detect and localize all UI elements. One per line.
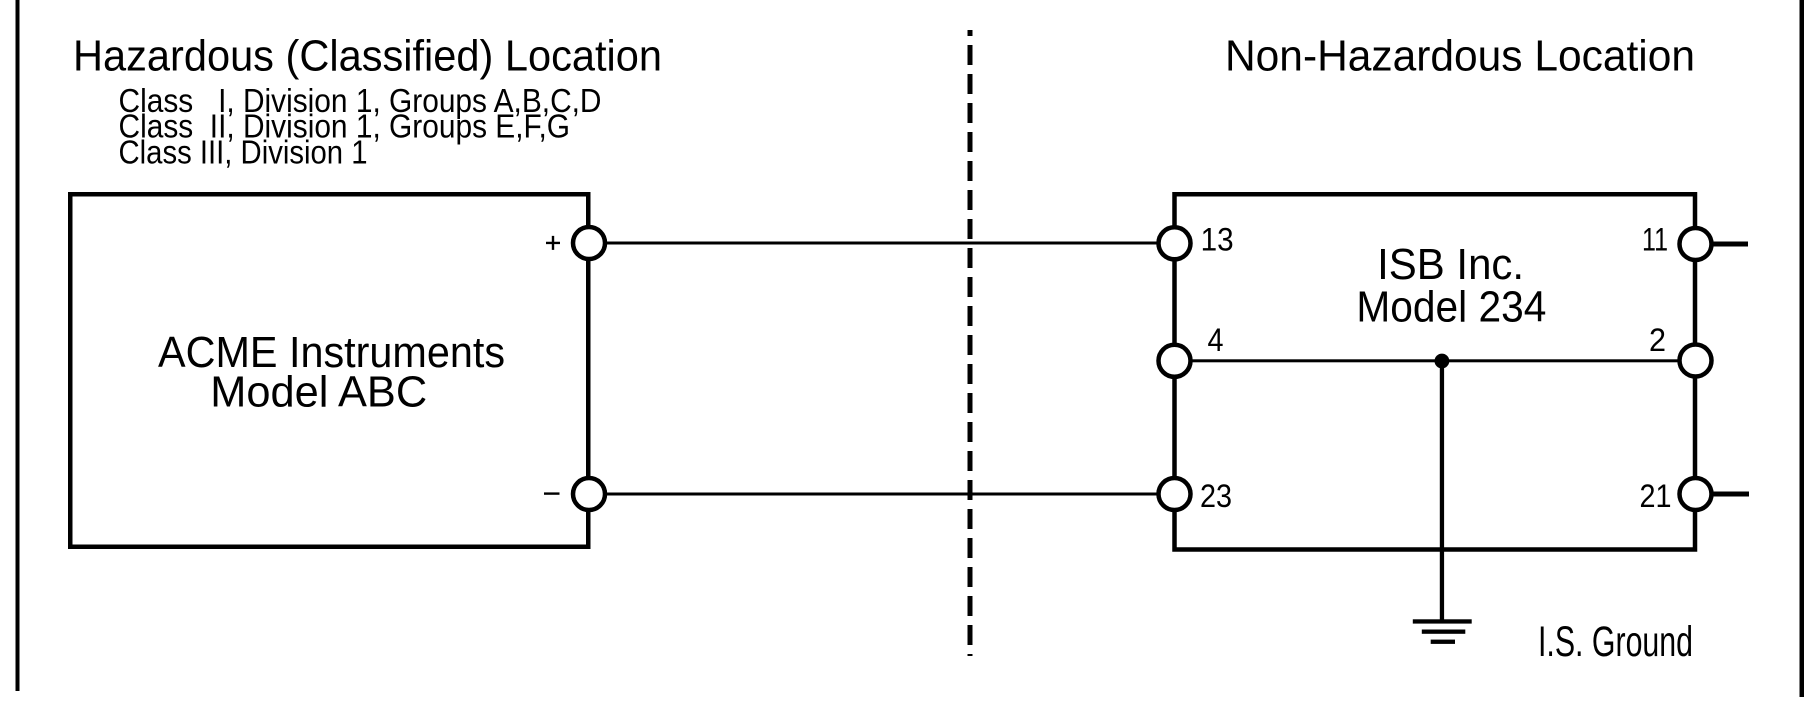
wire - to 23 [589,493,1175,496]
svg-text:21: 21 [1640,478,1672,514]
terminal 13 circle [1159,227,1191,259]
terminal 11 circle [1680,228,1712,260]
svg-text:2: 2 [1649,322,1666,358]
svg-text:Hazardous (Classified) Locatio: Hazardous (Classified) Location [73,32,662,81]
right border bar [1800,0,1805,697]
terminal + circle [573,227,605,259]
terminal 23 circle [1159,478,1191,510]
minus polarity mark [544,492,560,494]
terminal - circle [573,478,605,510]
terminal 21 circle [1680,478,1712,510]
earth ground symbol [1413,619,1472,644]
svg-text:Model 234: Model 234 [1356,284,1546,332]
wire stub terminal 11 [1713,242,1748,247]
svg-text:I.S. Ground: I.S. Ground [1538,618,1693,666]
wire 4 to 2 [1175,359,1696,362]
terminal 4 circle [1159,345,1191,377]
junction dot node [1435,354,1450,369]
terminal 2 circle [1680,345,1712,377]
left border bar [16,0,20,691]
device box ACME Instruments [70,194,588,547]
svg-text:23: 23 [1200,478,1232,514]
svg-text:4: 4 [1208,322,1224,358]
svg-text:ISB Inc.: ISB Inc. [1377,241,1524,289]
wire stub terminal 21 [1713,492,1749,497]
wire ground stem [1440,361,1444,622]
svg-text:Class III, Division 1: Class III, Division 1 [119,133,368,170]
svg-text:Non-Hazardous Location: Non-Hazardous Location [1225,32,1695,81]
plus polarity mark [546,236,560,250]
svg-text:11: 11 [1642,222,1668,258]
barrier box ISB Inc. [1175,194,1696,549]
wire + to 13 [589,242,1175,245]
svg-text:13: 13 [1201,222,1234,258]
svg-text:Model ABC: Model ABC [210,369,427,417]
hazardous/non-hazardous boundary dashed line [968,30,973,656]
